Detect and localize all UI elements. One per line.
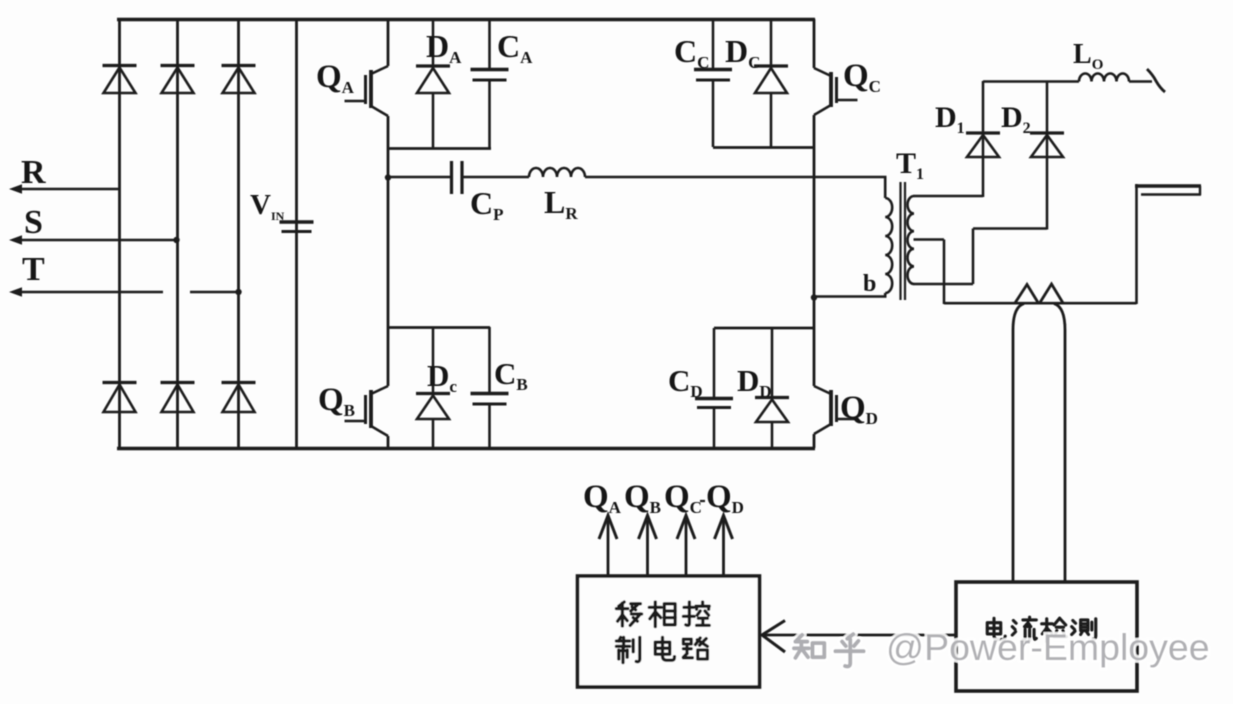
wire secondary center tap bbox=[914, 238, 945, 241]
wire rectifier column 1 bbox=[118, 19, 121, 448]
transistor QC bbox=[814, 68, 858, 115]
wire D2 cathode up bbox=[1046, 81, 1049, 133]
diode rectifier bottom column 1 bbox=[103, 383, 137, 413]
capacitor CB bbox=[471, 394, 509, 405]
capacitor CB branch wire bbox=[488, 327, 491, 393]
diode DD branch wire bbox=[771, 328, 774, 397]
arrowhead phase S bbox=[9, 235, 22, 245]
diode DB bbox=[416, 394, 450, 420]
text phase-shift control line2 bbox=[616, 637, 639, 662]
diode DB branch wire bbox=[432, 327, 435, 393]
diode DC bbox=[754, 66, 788, 93]
wire phase R bbox=[22, 188, 119, 191]
wire primary bottom lead bbox=[884, 293, 887, 296]
wire rectifier column 2 bbox=[176, 19, 179, 448]
text current detection bbox=[987, 618, 1005, 639]
wire DA anode down bbox=[432, 93, 435, 148]
diode rectifier top column 2 bbox=[161, 66, 195, 94]
diode DA bbox=[416, 66, 450, 93]
wire output top bbox=[983, 80, 1079, 83]
diode DD bbox=[755, 398, 789, 423]
capacitor CC bbox=[694, 70, 732, 81]
transformer T1 core bbox=[899, 182, 901, 300]
wire QC emitter down bbox=[813, 115, 816, 297]
diode rectifier bottom column 3 bbox=[222, 383, 256, 413]
capacitor CD branch wire bbox=[713, 328, 716, 398]
wire phase S bbox=[22, 239, 176, 242]
svg-text:@Power-Employee: @Power-Employee bbox=[886, 626, 1210, 668]
arrow gate QB bbox=[639, 516, 657, 577]
wire D1 cathode up bbox=[982, 81, 985, 133]
wire QD emitter to bus bbox=[813, 434, 816, 448]
wire right leg lower bbox=[813, 297, 816, 386]
transformer T1 primary winding bbox=[885, 198, 892, 293]
capacitor CA bbox=[471, 70, 509, 81]
wire CA down bbox=[488, 80, 491, 148]
node bridge left midpoint bbox=[385, 174, 391, 180]
diode rectifier top column 1 bbox=[103, 66, 137, 94]
arrowhead phase R bbox=[9, 184, 22, 194]
arrow gate QC bbox=[677, 516, 695, 577]
wire bottom DC bus bbox=[117, 447, 815, 450]
wire bottom lead up bbox=[972, 229, 975, 285]
wire output return vertical bbox=[1135, 184, 1138, 304]
wire CB to bus bbox=[488, 404, 491, 448]
arrowhead phase T bbox=[9, 287, 22, 297]
arrow gate QA bbox=[599, 516, 617, 577]
wire rectifier column 3 bbox=[237, 19, 240, 448]
output open slash bbox=[1147, 69, 1165, 92]
watermark zhihu logo bbox=[794, 635, 824, 658]
arrow gate QD bbox=[715, 516, 733, 577]
wire feedback bbox=[764, 634, 956, 637]
text phase-shift control line1 bbox=[616, 602, 641, 626]
node S junction bbox=[173, 237, 179, 243]
diode D2 bbox=[1030, 133, 1064, 157]
svg-text:T: T bbox=[22, 251, 45, 288]
wire QB snubber connector bbox=[388, 326, 490, 329]
capacitor CC branch wire bbox=[712, 19, 715, 69]
wire DC down bbox=[770, 93, 773, 147]
diode DA branch wire bbox=[432, 19, 435, 66]
wire phase T bbox=[22, 291, 163, 294]
node bridge right midpoint bbox=[811, 294, 817, 300]
wire DB to bus bbox=[432, 419, 435, 448]
small dash between QC QD bbox=[700, 500, 705, 502]
wire primary top lead bbox=[884, 177, 887, 198]
capacitor CD bbox=[695, 399, 733, 408]
capacitor CA branch wire bbox=[488, 19, 491, 69]
wire to D2 bbox=[973, 227, 1047, 230]
arrowhead feedback bbox=[762, 621, 785, 653]
wire QA snubber connector bbox=[388, 147, 491, 150]
wire output return horizontal bbox=[944, 302, 1137, 305]
wire QB emitter to bus bbox=[387, 436, 390, 448]
wire output after LO bbox=[1129, 80, 1152, 83]
transformer T1 secondary winding bbox=[908, 196, 914, 284]
current transformer secondary wires bbox=[1013, 304, 1024, 583]
transistor QA bbox=[345, 66, 389, 116]
diode rectifier top column 3 bbox=[222, 66, 256, 94]
wire top DC bus bbox=[117, 18, 815, 21]
wire left leg lower bbox=[387, 177, 390, 386]
wire QA emitter down bbox=[387, 116, 390, 177]
wire tank to transformer bbox=[585, 176, 887, 179]
wire DD to bus bbox=[771, 422, 774, 448]
current transformer primary humps bbox=[1015, 284, 1063, 303]
capacitor Vin bbox=[280, 222, 314, 232]
capacitor CP bbox=[452, 161, 463, 194]
inductor LR bbox=[529, 168, 585, 177]
wire CD to bus bbox=[713, 408, 716, 449]
transistor QD bbox=[814, 386, 858, 434]
box phase-shift control bbox=[578, 576, 760, 687]
output terminal bar bbox=[1135, 186, 1201, 195]
wire Vin rail bbox=[295, 19, 298, 448]
wire QD snubber connector bbox=[714, 327, 814, 330]
node T junction bbox=[235, 289, 241, 295]
wire QC collector bbox=[813, 19, 816, 68]
diode rectifier bottom column 2 bbox=[161, 383, 195, 413]
wire tank left bbox=[388, 176, 451, 179]
wire D1 anode bbox=[982, 135, 985, 197]
wire center tap down bbox=[943, 240, 946, 305]
wire secondary bottom lead bbox=[914, 283, 974, 286]
wire tank mid bbox=[462, 176, 529, 179]
wire QA collector bbox=[387, 19, 390, 66]
diode DC branch wire bbox=[770, 19, 773, 66]
box current detection bbox=[956, 582, 1137, 691]
diode D1 bbox=[966, 133, 1000, 157]
inductor LO bbox=[1079, 74, 1129, 82]
wire QC snubber connector bbox=[713, 146, 814, 149]
transistor QB bbox=[345, 386, 389, 436]
wire CC down bbox=[712, 80, 715, 147]
wire D2 anode bbox=[1046, 135, 1049, 230]
svg-text:b: b bbox=[863, 271, 876, 297]
svg-text:S: S bbox=[24, 204, 43, 241]
wire secondary top lead bbox=[914, 195, 984, 198]
svg-text:R: R bbox=[21, 154, 46, 191]
wire phase T segment 2 bbox=[190, 291, 238, 294]
